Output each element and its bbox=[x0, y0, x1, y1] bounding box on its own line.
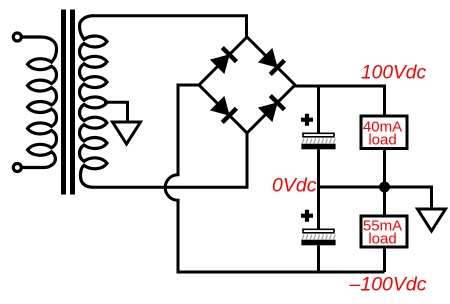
55mA load box bbox=[361, 216, 407, 247]
svg-text:load: load bbox=[368, 132, 396, 149]
svg-text:load: load bbox=[368, 231, 396, 248]
capacitor C1 bbox=[301, 114, 313, 126]
primary bottom terminal bbox=[13, 164, 21, 172]
ground (center tap) bbox=[113, 122, 141, 144]
wire: 55mA load to bottom rail bbox=[383, 247, 386, 273]
wire: cap rail bottom segment bbox=[317, 246, 320, 273]
transformer T1 secondary winding bbox=[79, 16, 107, 188]
svg-text:0Vdc: 0Vdc bbox=[272, 175, 317, 197]
40mA load box bbox=[361, 116, 407, 149]
diode D4 (bottom to right) bbox=[258, 102, 278, 122]
wire: cap rail middle segment bbox=[317, 150, 320, 231]
junction node 0V bbox=[379, 182, 390, 193]
wire: bridge left vertex to bottom rail (with hop) bbox=[165, 85, 199, 271]
wire: secondary bottom to bridge bottom vertex bbox=[93, 133, 247, 187]
wire: secondary top to bridge top bbox=[93, 16, 247, 38]
wire: cap rail top segment bbox=[317, 86, 320, 134]
ground (0V rail) bbox=[418, 209, 446, 231]
bridge diamond wires bbox=[199, 37, 295, 133]
wire: 0V junction to 55mA load bbox=[383, 187, 386, 216]
primary top terminal bbox=[13, 33, 21, 41]
wire: bridge right vertex to +100V rail bbox=[294, 86, 385, 116]
transformer T1 primary winding bbox=[22, 37, 57, 168]
wire: bottom rail (-100Vdc) bbox=[177, 271, 385, 274]
diode D2 (top to right) bbox=[258, 48, 278, 68]
svg-text:100Vdc: 100Vdc bbox=[361, 63, 426, 84]
wire: 40mA load to 0V junction bbox=[383, 148, 386, 187]
center tap wire bbox=[104, 102, 128, 122]
svg-text:–100Vdc: –100Vdc bbox=[349, 274, 427, 296]
transformer core bbox=[64, 10, 73, 195]
diode D1 (left to top) bbox=[210, 54, 230, 74]
capacitor C2 bbox=[301, 210, 313, 222]
diode D3 (left to bottom) bbox=[210, 96, 230, 116]
wire: 0V rail bbox=[319, 187, 432, 210]
